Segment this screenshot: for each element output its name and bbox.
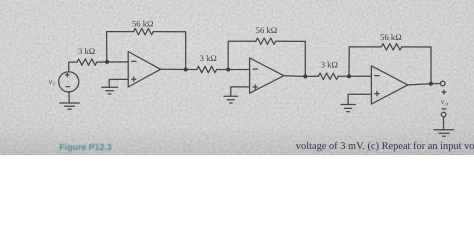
U3 output wire to terminal bbox=[408, 84, 441, 85]
label vo bbox=[441, 97, 449, 108]
source minus symbol bbox=[66, 86, 70, 88]
wire R5 to U3 bbox=[338, 75, 371, 77]
U3 plus symbol bbox=[375, 92, 379, 96]
node D dot bbox=[303, 74, 307, 78]
svg-text:56 kΩ: 56 kΩ bbox=[132, 19, 153, 29]
ground G1 bbox=[102, 87, 118, 94]
op-amp U2 bbox=[250, 58, 284, 93]
U2 output wire bbox=[284, 75, 319, 78]
svg-text:3 kΩ: 3 kΩ bbox=[200, 53, 217, 63]
op-amp U1 bbox=[128, 52, 160, 88]
wire terminal bottom to ground bbox=[443, 117, 445, 130]
ground G4 output bbox=[434, 130, 454, 136]
U1 plus symbol bbox=[132, 77, 136, 81]
svg-text:3 kΩ: 3 kΩ bbox=[78, 46, 95, 56]
source ground bbox=[68, 92, 70, 103]
svg-text:56 kΩ: 56 kΩ bbox=[256, 25, 277, 35]
output terminal bottom bbox=[441, 112, 446, 117]
wire F1 top-right and down to U1 output bbox=[153, 32, 185, 70]
output terminal top bbox=[440, 81, 445, 86]
wire F2 top-right and down to U2 output bbox=[276, 41, 306, 76]
svg-text:v: v bbox=[441, 97, 445, 106]
wire R1 to opamp U1 minus bbox=[97, 61, 128, 63]
svg-text:56 kΩ: 56 kΩ bbox=[380, 32, 401, 42]
resistor R4 56k zigzag bbox=[256, 38, 276, 44]
ground G2 bbox=[224, 96, 238, 103]
U3 minus symbol bbox=[375, 75, 379, 77]
svg-text:v: v bbox=[49, 77, 53, 86]
svg-text:o: o bbox=[445, 101, 448, 107]
resistor R2 56k zigzag bbox=[134, 28, 154, 34]
label vi bbox=[49, 77, 56, 88]
output plus symbol bbox=[442, 90, 446, 94]
bottom shadow band bbox=[0, 0, 474, 155]
voltage source vi bbox=[59, 72, 79, 92]
source plus symbol bbox=[66, 73, 69, 76]
wire R3 to U2 bbox=[217, 69, 250, 71]
U3 plus wire to ground bbox=[348, 94, 371, 104]
U2 plus wire to ground bbox=[231, 87, 250, 96]
junction dots bbox=[105, 60, 433, 86]
U1 minus symbol bbox=[132, 60, 136, 62]
feedback F1: node up, across, down bbox=[107, 32, 134, 62]
paper background bbox=[0, 0, 474, 155]
svg-text:voltage of 3 mV. (c) Repeat fo: voltage of 3 mV. (c) Repeat for an input… bbox=[296, 141, 474, 152]
node F dot bbox=[429, 82, 433, 86]
wire F3 top-right and down to U3 output bbox=[402, 47, 431, 84]
svg-text:Figure P12.3: Figure P12.3 bbox=[59, 142, 111, 152]
U1 output wire bbox=[161, 68, 197, 70]
U2 plus symbol bbox=[253, 85, 257, 89]
feedback F2 bbox=[228, 41, 256, 69]
op-amp U3 bbox=[371, 66, 407, 104]
U1 plus wire to ground bbox=[109, 79, 128, 87]
U2 minus symbol bbox=[253, 68, 257, 70]
feedback F3 bbox=[349, 47, 381, 76]
node C dot bbox=[226, 68, 230, 72]
resistor R5 3k zigzag bbox=[318, 73, 338, 79]
node A dot bbox=[105, 60, 109, 64]
node B dot bbox=[184, 68, 188, 72]
component value labels bbox=[78, 19, 402, 70]
resistor R3 3k zigzag bbox=[197, 66, 217, 72]
resistor R6 56k zigzag bbox=[381, 44, 401, 50]
node E dot bbox=[347, 74, 351, 78]
wire source top to R1 bbox=[69, 62, 77, 72]
ground G3 bbox=[341, 105, 356, 112]
resistor R1 3k zigzag bbox=[77, 59, 97, 65]
svg-text:3 kΩ: 3 kΩ bbox=[321, 60, 338, 70]
output minus symbol bbox=[442, 108, 446, 110]
